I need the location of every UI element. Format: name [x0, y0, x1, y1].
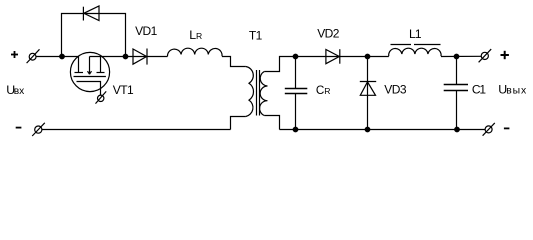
svg-text:R: R: [324, 86, 330, 96]
minus output label: [504, 127, 510, 129]
svg-text:VD3: VD3: [384, 83, 407, 97]
diode VD3: [360, 82, 376, 96]
diode VD1: [133, 49, 147, 65]
svg-text:R: R: [196, 31, 202, 41]
output terminal +: [479, 49, 492, 62]
output terminal -: [483, 123, 495, 136]
capacitor CR: [285, 57, 308, 130]
node C bottom junction: [293, 127, 298, 132]
node E junction: [454, 54, 459, 59]
transformer core: [257, 70, 260, 116]
node D bottom junction: [365, 127, 370, 132]
gate terminal of VT1: [96, 91, 107, 103]
antiparallel diode of VT1: [83, 6, 99, 21]
wire VD2 to node D: [340, 56, 389, 58]
plus input label: [11, 51, 18, 58]
wire T1 primary bottom to rail: [231, 117, 246, 130]
svg-text:C1: C1: [472, 83, 486, 97]
capacitor C1: [444, 57, 468, 130]
inductor L1: [389, 48, 441, 56]
wire VD1 to LR: [147, 56, 168, 58]
transistor VT1: [70, 52, 109, 95]
wire left riser of diode loop: [62, 14, 126, 57]
wire L1 to node E: [441, 55, 481, 57]
svg-text:VT1: VT1: [113, 83, 134, 97]
svg-text:C: C: [316, 84, 324, 97]
node E bottom junction: [455, 127, 460, 132]
svg-text:L1: L1: [409, 27, 422, 41]
core bars of L1: [391, 44, 441, 46]
wire T1 secondary top to node C: [264, 57, 340, 72]
bottom rail right: [280, 129, 486, 131]
node A junction: [60, 54, 65, 59]
node B junction: [123, 54, 128, 59]
wire input to node A: [36, 56, 79, 58]
wire node B to VD1: [90, 56, 148, 58]
diode VD2: [326, 49, 340, 64]
svg-text:T1: T1: [249, 29, 263, 43]
svg-text:вых: вых: [506, 86, 527, 97]
svg-text:VD1: VD1: [135, 24, 158, 38]
bottom rail left: [42, 129, 231, 131]
transformer T1 secondary winding: [260, 72, 268, 116]
input terminal -: [32, 123, 45, 136]
wire LR to T1 primary: [222, 57, 246, 67]
wire T1 secondary bottom to rail: [264, 116, 279, 130]
wire node D down through VD3: [367, 57, 369, 130]
node C junction: [293, 54, 298, 59]
inductor LR: [167, 48, 222, 56]
svg-text:VD2: VD2: [317, 27, 340, 41]
plus output label: [501, 51, 509, 59]
node D junction: [365, 54, 370, 59]
minus input label: [16, 127, 22, 129]
svg-text:вх: вх: [14, 86, 25, 97]
input terminal +: [27, 49, 40, 63]
transformer T1 primary winding: [246, 67, 254, 117]
